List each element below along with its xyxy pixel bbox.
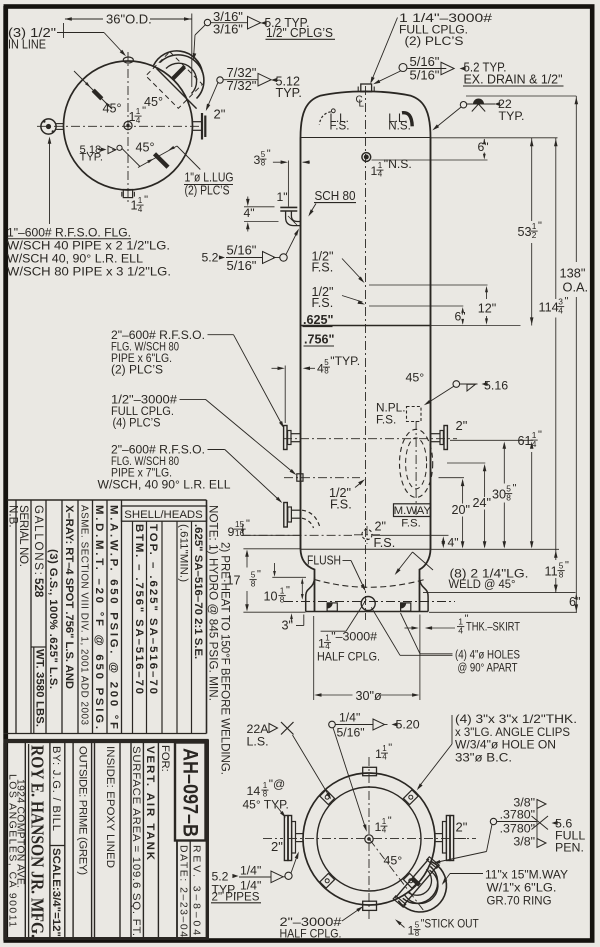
reference line 2 inch nozzle ext: [450, 439, 533, 441]
dimension 114 3/4: [555, 138, 557, 299]
svg-text:FOR:: FOR:: [159, 745, 171, 772]
dimension 61 1/4: [531, 452, 533, 547]
title block columns: [24, 743, 26, 939]
svg-text:": ": [513, 483, 517, 495]
svg-text:45°: 45°: [144, 95, 163, 109]
svg-text:TYP.: TYP.: [80, 152, 103, 164]
weight sub cell: [33, 647, 35, 734]
weld callout 5/16 top head: [399, 64, 407, 72]
svg-text:NOTE: 1) HYDRO @ 845 PSIG: NOTE: 1) HYDRO @ 845 PSIG. MIN.: [206, 505, 219, 701]
svg-text:1: 1: [378, 161, 383, 170]
upper SCH 80 drain assembly: [280, 206, 297, 208]
svg-text:PEN.: PEN.: [555, 841, 584, 855]
svg-text:": ": [565, 560, 569, 572]
svg-text:": ": [538, 220, 542, 232]
svg-text:.625": .625": [303, 313, 334, 327]
svg-text:4: 4: [458, 626, 463, 636]
bottom view shell circle: [317, 787, 421, 891]
svg-text:528: 528: [32, 578, 45, 598]
reference line head top extended: [466, 95, 576, 97]
svg-text:SURFACE AREA = 109.6 SQ.: SURFACE AREA = 109.6 SQ. FT.: [130, 746, 142, 936]
svg-text:W/SCH, 40 90° L.R. ELL: W/SCH, 40 90° L.R. ELL: [98, 478, 231, 492]
svg-text:ASME. SECTION VIII DIV. 1, 20: ASME. SECTION VIII DIV. 1, 2001 ADD 2003: [79, 505, 90, 726]
dimension 36 O.D.: [65, 18, 103, 20]
left reference line skirt top: [272, 576, 306, 578]
svg-text:THK.–SKIRT: THK.–SKIRT: [466, 620, 520, 634]
svg-text:(.611"MIN.): (.611"MIN.): [177, 524, 189, 582]
bottom view diagonal centerline to manway: [370, 840, 424, 911]
svg-text:": ": [538, 429, 542, 441]
svg-text:(3) G.S., 100% .625" L.S.: (3) G.S., 100% .625" L.S.: [47, 549, 59, 689]
top view right nozzle 2 inch: [193, 121, 202, 123]
bottom knuckles and skirt: [301, 549, 315, 611]
svg-text:2) PRE·HEAT TO 150°F BEFOR: 2) PRE·HEAT TO 150°F BEFORE WELDING.: [219, 542, 232, 775]
svg-text:6": 6": [569, 595, 580, 609]
dimension 6 inch mid: [462, 310, 464, 312]
svg-text:BY: J.G. / BILL: BY: J.G. / BILL: [50, 746, 62, 831]
svg-text:(4) PLC’S: (4) PLC’S: [113, 416, 161, 430]
svg-text:1: 1: [138, 196, 143, 205]
svg-text:": ": [565, 296, 569, 308]
svg-text:3/16": 3/16": [213, 21, 243, 36]
bottom view horizontal centerline: [288, 838, 466, 840]
svg-text:": ": [267, 148, 271, 160]
svg-text:F.S.: F.S.: [374, 536, 396, 550]
weld callout 1/4 5/16 5.20: [329, 721, 336, 728]
bottom view manway inner ring arc: [404, 870, 438, 903]
svg-text:BTM. – .756" SA–516–70: BTM. – .756" SA–516–70: [133, 524, 145, 694]
svg-text:45°: 45°: [384, 854, 403, 868]
dimension 30 dia skirt: [313, 616, 315, 700]
bottom view manway neck lines: [395, 859, 429, 898]
svg-text:WT. 3580 LBS.: WT. 3580 LBS.: [34, 649, 46, 727]
manway dashed oval elevation: [400, 429, 433, 497]
svg-text:F.S.: F.S.: [312, 296, 334, 310]
svg-text:TOP. – .625" SA–516–70: TOP. – .625" SA–516–70: [147, 524, 159, 694]
svg-text:4": 4": [244, 206, 255, 220]
top view lower-right lifting lug: [122, 149, 140, 167]
reference line 535: [242, 534, 352, 536]
top view manway dashed opening: [146, 52, 203, 109]
shell split line .625/.756: [301, 325, 431, 327]
elevation shell walls: [300, 138, 302, 550]
top view left nozzle 1 inch flange: [41, 119, 56, 134]
svg-text:(2) PLC’S: (2) PLC’S: [405, 34, 464, 48]
weld callout 3/8 .3780 full pen: [490, 818, 496, 824]
bottom half coupling circle: [361, 597, 375, 611]
weld note (8) 2 1/4 LG: [413, 552, 434, 570]
bottom view bottom half coupling: [363, 901, 377, 910]
elevation head dome: [301, 91, 431, 137]
svg-text:5/16": 5/16": [337, 726, 365, 740]
svg-text:2": 2": [271, 839, 283, 854]
svg-text:4: 4: [317, 362, 324, 376]
svg-text:W/3/4"ø HOLE ON: W/3/4"ø HOLE ON: [455, 738, 556, 752]
svg-text:3/8": 3/8": [513, 835, 535, 849]
svg-text:L.S.: L.S.: [247, 735, 269, 749]
svg-text:3: 3: [254, 153, 261, 167]
svg-text:1: 1: [318, 637, 325, 651]
shell heads sub columns: [132, 521, 134, 733]
dimension 53 1/2: [531, 138, 533, 221]
tangent line extension right: [431, 137, 558, 139]
svg-text:2": 2": [456, 820, 468, 835]
nameplate dashed box N.PL: [407, 407, 422, 422]
svg-text:4: 4: [378, 170, 383, 179]
svg-text:6": 6": [455, 310, 466, 324]
svg-text:SCH 80: SCH 80: [315, 189, 356, 203]
top view manway cross bar: [172, 67, 185, 80]
svg-text:W/1"x 6"LG.: W/1"x 6"LG.: [487, 881, 557, 895]
top view manway davit arm chord: [157, 69, 197, 109]
bottom view vertical centerline: [368, 757, 370, 920]
svg-text:1924 COMPTON AVE.: 1924 COMPTON AVE.: [15, 779, 26, 888]
dimension 17 5/8: [246, 554, 248, 568]
reference line base extension: [429, 611, 577, 613]
svg-text:FLUSH: FLUSH: [307, 554, 341, 568]
svg-text:5/16": 5/16": [410, 67, 440, 82]
svg-text:5/16": 5/16": [227, 258, 257, 273]
svg-text:45°: 45°: [136, 141, 155, 155]
svg-text:8: 8: [415, 929, 420, 938]
left reference line 535: [242, 534, 300, 536]
top view bottom coupling 1 1/4: [123, 190, 132, 198]
svg-text:5.2: 5.2: [202, 251, 219, 265]
AH number box: [175, 743, 206, 841]
svg-text:30"ø: 30"ø: [356, 689, 382, 703]
weld symbol 22 TYP: [460, 102, 466, 108]
svg-text:12": 12": [478, 302, 496, 316]
svg-text:10: 10: [264, 590, 278, 604]
svg-text:1: 1: [382, 817, 387, 826]
svg-text:"TYP.: "TYP.: [330, 354, 360, 368]
svg-text:5: 5: [415, 920, 420, 929]
svg-text:6": 6": [478, 140, 489, 154]
node 2 inch F.S. bottom head: [362, 529, 372, 539]
svg-text:(2) PLC’S: (2) PLC’S: [111, 363, 163, 377]
svg-text:": ": [257, 569, 261, 581]
reference line 592: [423, 592, 576, 594]
svg-text:1: 1: [325, 633, 330, 642]
bottom view center hole: [365, 835, 373, 843]
svg-text:(2) PLC’S: (2) PLC’S: [185, 184, 230, 198]
elevation head tangent line: [301, 137, 431, 139]
upper data table outline: [7, 499, 207, 501]
svg-text:F.S.: F.S.: [401, 518, 421, 530]
svg-text:11: 11: [545, 565, 558, 579]
svg-text:": ": [144, 194, 148, 206]
top view vertical centerline: [127, 52, 129, 203]
svg-text:1: 1: [371, 164, 378, 178]
svg-text:M.WAY: M.WAY: [394, 505, 432, 517]
svg-text:.625" SA–516–70 2:1 S.E.: .625" SA–516–70 2:1 S.E.: [192, 524, 204, 659]
angle clips: [403, 790, 418, 805]
reference line half coupling 306: [369, 305, 463, 307]
svg-text:@ 90° APART: @ 90° APART: [458, 661, 518, 675]
svg-text:EX. DRAIN & 1/2": EX. DRAIN & 1/2": [464, 73, 563, 87]
svg-text:TYP.: TYP.: [276, 86, 302, 100]
svg-text:5: 5: [324, 358, 329, 367]
svg-text:9: 9: [228, 525, 235, 539]
half coupling on wall 1/2 FS: [297, 474, 303, 481]
dimension 11 5/8: [555, 552, 557, 560]
svg-text:4: 4: [382, 826, 387, 835]
svg-text:.3780": .3780": [500, 808, 535, 822]
svg-text:HALF CPLG.: HALF CPLG.: [280, 927, 342, 941]
svg-text:4: 4: [138, 205, 143, 214]
svg-text:X–RAY: RT–4 SPOT .756" L.S: X–RAY: RT–4 SPOT .756" L.S. AND: [63, 505, 75, 689]
svg-text:SCALE:3/4"=12": SCALE:3/4"=12": [50, 848, 62, 937]
svg-text:61: 61: [518, 434, 532, 448]
svg-text:1: 1: [136, 107, 141, 116]
svg-text:F.S.: F.S.: [330, 498, 352, 512]
svg-text:2" PIPES: 2" PIPES: [212, 890, 260, 904]
svg-text:": ": [388, 742, 392, 754]
svg-text:W/SCH 40 PIPE x 2 1/2"LG.: W/SCH 40 PIPE x 2 1/2"LG.: [7, 239, 170, 253]
svg-text:W/SCH 80 PIPE x 3 1/2"LG.: W/SCH 80 PIPE x 3 1/2"LG.: [7, 265, 171, 279]
svg-text:8: 8: [324, 367, 329, 376]
svg-text:": ": [388, 815, 392, 827]
svg-text:1: 1: [263, 781, 268, 790]
top view manway ring arc: [154, 51, 203, 73]
bottom view manway cross bar: [412, 878, 420, 885]
svg-text:SERIAL NO.: SERIAL NO.: [17, 505, 30, 567]
svg-text:45° TYP.: 45° TYP.: [243, 798, 289, 812]
svg-text:": ": [286, 585, 290, 597]
top view upper-left lifting lug: [74, 71, 112, 109]
svg-text:8: 8: [261, 159, 266, 168]
leader from left nozzle to flange note: [49, 139, 51, 224]
bottom view top coupling: [363, 767, 377, 775]
svg-text:4: 4: [136, 116, 141, 125]
top view top in-line coupling: [123, 57, 133, 63]
svg-text:1: 1: [375, 747, 382, 761]
svg-text:1/4": 1/4": [240, 864, 261, 878]
svg-text:1: 1: [129, 110, 136, 124]
shell heads header box: [122, 506, 207, 521]
svg-text:REV. 3–8–04: REV. 3–8–04: [191, 845, 202, 935]
dimension 4 inch tangent: [442, 539, 444, 546]
svg-text:1: 1: [131, 199, 138, 213]
svg-text:45°: 45°: [406, 371, 425, 385]
node 1 1/4 N.S.: [362, 153, 371, 162]
svg-text:5.16: 5.16: [484, 379, 508, 393]
weld callout 5.16 nameplate: [453, 381, 460, 388]
svg-text:14: 14: [247, 784, 261, 798]
svg-text:5.20: 5.20: [396, 718, 420, 732]
svg-text:53: 53: [518, 225, 532, 239]
svg-text:1: 1: [408, 924, 415, 938]
svg-text:1: 1: [382, 744, 387, 753]
svg-text:1/2" CPLG’S: 1/2" CPLG’S: [266, 26, 333, 40]
note (4) 4 dia holes: [401, 613, 421, 654]
svg-text:.756": .756": [304, 333, 335, 347]
svg-text:33"ø B.C.: 33"ø B.C.: [455, 751, 512, 765]
elevation vertical centerline: [365, 86, 367, 620]
svg-text:(4) 3"x 3"x 1/2"THK.: (4) 3"x 3"x 1/2"THK.: [455, 712, 577, 726]
svg-text:WELD @ 45°: WELD @ 45°: [449, 577, 516, 591]
svg-text:F.S.: F.S.: [376, 413, 396, 427]
svg-text:4": 4": [448, 536, 459, 550]
svg-text:AH–097–B: AH–097–B: [179, 748, 203, 837]
svg-text:": ": [246, 518, 250, 530]
top view shell circle 36 O.D.: [64, 61, 193, 190]
dimension 6 top right: [483, 139, 485, 141]
left reference line base: [243, 611, 305, 613]
reference line 1 1/4 NS: [372, 159, 488, 161]
svg-text:15: 15: [235, 520, 245, 529]
dimension 10 1/8: [301, 582, 303, 595]
svg-text:ROY E. HANSON JR. MFG.: ROY E. HANSON JR. MFG.: [28, 745, 48, 938]
bottom head dashed profile: [315, 580, 425, 588]
svg-text:INSIDE: EPOXY LINED: INSIDE: EPOXY LINED: [104, 746, 116, 868]
tangent extension right lower: [431, 548, 560, 550]
rev date box: [177, 841, 207, 939]
lower 2-600 nozzle with elbow: [284, 503, 288, 528]
nozzle pair 2 inch 600 flanges: [284, 426, 287, 450]
svg-text:114: 114: [539, 301, 559, 315]
svg-text:2": 2": [456, 418, 468, 433]
left reference line tangent: [243, 548, 300, 550]
weld callout 7/32 manway flange: [217, 77, 223, 83]
dimension 138 O.A.: [575, 96, 577, 262]
svg-text:F.S.: F.S.: [312, 261, 334, 275]
skirt base line: [306, 611, 428, 613]
bottom view manway ring outer arc: [398, 862, 446, 913]
top view manway davit D-arc: [160, 55, 204, 99]
svg-text:1: 1: [375, 820, 382, 834]
svg-text:36"O.D.: 36"O.D.: [106, 12, 152, 27]
svg-text:"–3000#: "–3000#: [331, 630, 377, 644]
svg-text:2": 2": [214, 107, 226, 122]
svg-text:1"ø L.LUG: 1"ø L.LUG: [185, 171, 234, 185]
scale sub box: [50, 845, 65, 847]
svg-text:1"–600# R.F.S.O. FLG.: 1"–600# R.F.S.O. FLG.: [7, 226, 131, 240]
svg-text:"STICK OUT: "STICK OUT: [421, 917, 479, 931]
bottom view manway D arc: [403, 866, 438, 903]
bottom tangent seam: [301, 548, 431, 550]
label M.WAY F.S. boxed: [394, 504, 431, 517]
svg-text:24": 24": [473, 496, 491, 510]
svg-text:2": 2": [375, 520, 386, 534]
title block outline: [6, 741, 208, 939]
svg-text:W/SCH 40, 90° L.R. ELL: W/SCH 40, 90° L.R. ELL: [7, 252, 143, 266]
svg-text:45°: 45°: [103, 102, 122, 116]
bottom view outer flange circle: [303, 773, 435, 905]
svg-text:DATE: 2–23–04: DATE: 2–23–04: [178, 845, 189, 937]
svg-text:138": 138": [560, 266, 586, 281]
dimension 24 inch: [484, 466, 486, 497]
svg-text:L: L: [359, 99, 365, 110]
svg-text:"@: "@: [269, 777, 285, 791]
upper table column lines: [15, 500, 17, 734]
dimension 30 5/8: [503, 444, 505, 484]
centerline 1/2 FS node: [284, 477, 360, 479]
skirt centerline: [284, 601, 455, 603]
svg-text:IN LINE: IN LINE: [8, 37, 46, 52]
svg-text:OUTSIDE: PRIME (GREY): OUTSIDE: PRIME (GREY): [77, 746, 89, 875]
svg-text:HALF CPLG.: HALF CPLG.: [317, 650, 380, 664]
top view center coupling node: [124, 121, 132, 129]
dimension 20 inch: [462, 481, 464, 504]
dimension 12 inch: [486, 288, 488, 299]
top view horizontal centerline: [37, 125, 201, 127]
svg-text:.3780": .3780": [500, 822, 535, 836]
svg-text:O.A.: O.A.: [563, 280, 589, 295]
svg-text:11"x 15"M.WAY: 11"x 15"M.WAY: [485, 868, 568, 882]
svg-text:N.S.: N.S.: [388, 120, 411, 133]
elevation top coupling 1 1/4-3000: [361, 84, 372, 92]
svg-text:4: 4: [382, 753, 387, 762]
svg-text:20": 20": [452, 503, 470, 517]
svg-text:5: 5: [261, 150, 266, 159]
svg-text:TYP.: TYP.: [499, 109, 525, 123]
svg-text:5/16": 5/16": [227, 243, 257, 258]
bottom view left 2 inch nozzle: [296, 833, 304, 835]
svg-text:SHELL/HEADS: SHELL/HEADS: [124, 509, 203, 521]
bottom view right 2 inch nozzle: [435, 833, 443, 835]
svg-text:1": 1": [277, 190, 288, 204]
svg-text:(4) 4"ø HOLES: (4) 4"ø HOLES: [455, 648, 520, 662]
svg-text:GR.70 RING: GR.70 RING: [487, 894, 552, 908]
svg-text:5.2: 5.2: [212, 870, 229, 884]
nozzle centerline 438: [283, 438, 457, 440]
dimension 4 inch drop: [244, 206, 275, 208]
svg-text:1/4": 1/4": [339, 711, 360, 725]
arrow to skirt top line: [274, 563, 276, 572]
reference line half coupling 285: [369, 284, 488, 286]
svg-text:"N.S.: "N.S.: [384, 157, 412, 171]
skirt access holes: [327, 603, 337, 611]
svg-text:30: 30: [492, 488, 506, 502]
bottom view manway end caps: [427, 857, 440, 868]
leader half coupling label: [321, 630, 346, 632]
dimension 1/4 thick skirt: [405, 627, 415, 629]
weld callout 3/16 3/16 cplgs: [204, 19, 210, 25]
svg-text:F.S.: F.S.: [330, 120, 350, 133]
